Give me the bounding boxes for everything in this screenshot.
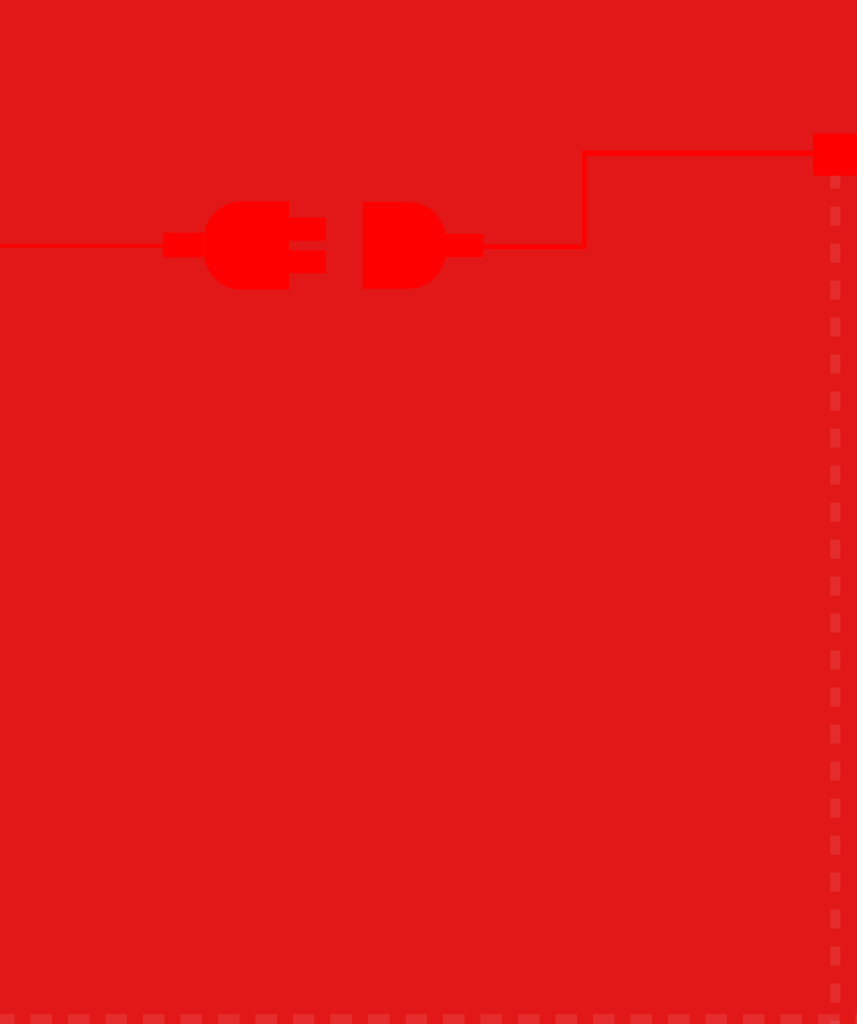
wire W2 vertical segment [582,150,586,249]
plug P1 prong bottom [289,250,326,273]
wire W1 left segment [0,244,166,247]
wire W2 top segment [582,151,814,156]
plug P1 prong top [289,218,326,241]
socket P2 neck [446,234,484,257]
socket P2 body [363,202,446,289]
wire W2 horizontal segment [484,245,587,250]
plug P1 body [204,201,289,289]
bottom dashed border [0,1014,857,1024]
plug P1 neck [163,233,203,257]
right dashed border [830,170,840,1024]
outlet square [813,133,857,175]
